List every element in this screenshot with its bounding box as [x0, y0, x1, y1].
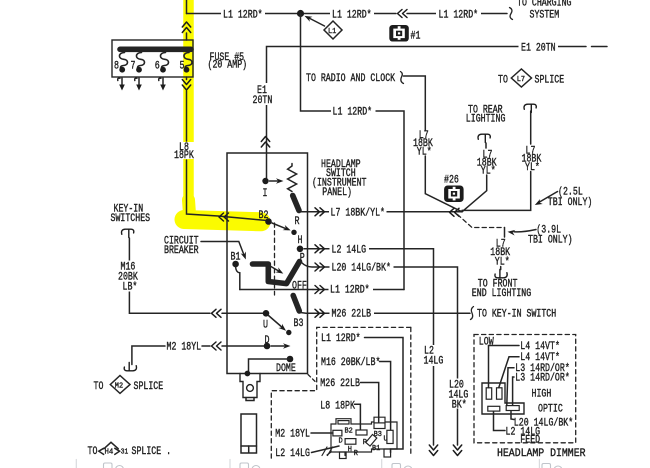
svg-text:L7: L7	[517, 76, 525, 84]
svg-text:FEED: FEED	[520, 435, 540, 447]
label HEADLAMP SWITCH	[312, 159, 367, 199]
connector wire labels	[320, 333, 403, 453]
svg-text:L3 14RD/OR*: L3 14RD/OR*	[515, 372, 570, 384]
svg-text:M2 18YL: M2 18YL	[167, 342, 202, 354]
callout 3.9L TBI ONLY	[507, 225, 572, 247]
svg-text:L2 14LG: L2 14LG	[275, 448, 310, 460]
wire L7 to radio and clock	[306, 72, 462, 212]
splice M2	[94, 376, 164, 394]
terminal I and resistor	[262, 164, 296, 201]
connector arrows below fuse	[118, 78, 166, 91]
label TO CHARGING SYSTEM	[517, 0, 572, 22]
svg-text:D: D	[339, 437, 344, 445]
svg-text:B2: B2	[345, 427, 354, 435]
terminal U	[263, 310, 292, 335]
svg-text:L1: L1	[328, 28, 337, 36]
svg-text:L7 18BK/YL*: L7 18BK/YL*	[331, 208, 386, 220]
svg-text:31: 31	[121, 449, 129, 457]
wire M16 20BK/LB	[116, 238, 266, 317]
dimmer connector	[482, 383, 524, 414]
highlight marker yellow	[184, 0, 261, 222]
svg-text:TO RADIO AND CLOCK: TO RADIO AND CLOCK	[306, 73, 395, 85]
svg-text:SWITCHES: SWITCHES	[111, 213, 151, 225]
svg-text:HIGH: HIGH	[532, 389, 552, 401]
svg-text:YL*: YL*	[417, 147, 432, 159]
headlamp switch box	[227, 153, 308, 374]
svg-text:BREAKER: BREAKER	[164, 245, 199, 257]
svg-text:B3: B3	[294, 318, 304, 330]
svg-text:TO CHARGING: TO CHARGING	[517, 0, 572, 10]
svg-text:PANEL): PANEL)	[322, 187, 352, 199]
fuse #5 block	[112, 40, 193, 77]
splice symbol L1	[303, 13, 342, 39]
switch connector plug	[240, 371, 260, 401]
svg-text:#1: #1	[411, 31, 421, 43]
wire M2 18YL	[124, 342, 266, 371]
svg-text:L2 14LG: L2 14LG	[332, 245, 367, 257]
svg-text:M26 22LB: M26 22LB	[320, 378, 360, 390]
svg-text:SYSTEM: SYSTEM	[530, 10, 560, 22]
svg-text:B1: B1	[372, 445, 381, 453]
wire L1 12RD vertical link	[301, 14, 405, 290]
wire L7 18BK/YL from switch	[299, 206, 462, 220]
svg-text:DOME: DOME	[276, 363, 296, 375]
svg-text:I: I	[263, 188, 268, 200]
svg-text:20TN: 20TN	[253, 95, 273, 107]
svg-text:M16 20BK/LB*: M16 20BK/LB*	[321, 357, 380, 369]
svg-text:BK*: BK*	[452, 400, 467, 412]
terminal B2	[259, 210, 300, 235]
svg-text:14LG: 14LG	[424, 356, 444, 368]
label FUSE #5 (20 AMP)	[208, 52, 248, 72]
thumbnail row	[76, 460, 562, 468]
wiper R	[293, 196, 299, 211]
wire L7 3.9L branch dashed	[458, 215, 532, 301]
svg-text:OFF: OFF	[292, 281, 307, 293]
svg-text:YL*: YL*	[495, 257, 510, 269]
svg-text:H: H	[298, 235, 303, 247]
svg-text:L1 12RD*: L1 12RD*	[330, 285, 370, 297]
wiper OFF-P thick path	[253, 253, 305, 284]
wire L7 to rear lighting	[462, 105, 505, 212]
svg-text:TO: TO	[94, 381, 104, 393]
svg-text:L1 12RD*: L1 12RD*	[333, 107, 373, 119]
svg-text:TBI ONLY): TBI ONLY)	[528, 235, 573, 247]
headlamp dimmer box	[474, 335, 586, 461]
svg-text:18PK: 18PK	[174, 150, 194, 162]
svg-text:7: 7	[131, 61, 136, 73]
wire L2 14LG	[304, 244, 444, 456]
dimmer labels	[479, 337, 573, 447]
instrument panel connector	[327, 417, 397, 458]
terminal D	[264, 335, 291, 350]
svg-text:H: H	[348, 446, 352, 454]
svg-text:L1 12RD*: L1 12RD*	[223, 10, 263, 22]
svg-text:L1 12RD*: L1 12RD*	[332, 10, 372, 22]
wire M2 18YL connector	[275, 428, 333, 440]
svg-text:LIGHTING: LIGHTING	[466, 114, 506, 126]
svg-text:M2 18YL: M2 18YL	[275, 428, 310, 440]
splice #26	[444, 175, 464, 203]
wire L1 12RD from OFF	[313, 284, 404, 297]
svg-text:6: 6	[155, 61, 160, 73]
dashed divider	[274, 223, 276, 295]
splice H4 note	[88, 442, 172, 458]
svg-text:TO: TO	[88, 446, 98, 458]
wire L7 right 2.5L	[462, 104, 542, 210]
splice L7 note	[498, 69, 564, 87]
svg-text:B2: B2	[259, 210, 269, 222]
svg-text:LOW: LOW	[479, 337, 494, 349]
wire L1 12RD top feed	[187, 8, 513, 22]
wire M26 22LB	[300, 308, 471, 321]
svg-text:TBI ONLY): TBI ONLY)	[548, 197, 593, 209]
dashed connector box	[271, 327, 411, 461]
svg-text:E1 20TN: E1 20TN	[521, 43, 556, 55]
svg-text:B1: B1	[231, 252, 241, 264]
circuit breaker callout	[164, 236, 248, 261]
callout 2.5L TBI ONLY	[533, 187, 592, 210]
svg-text:YL*: YL*	[481, 166, 496, 178]
svg-text:OPTIC: OPTIC	[538, 404, 563, 416]
label KEY-IN SWITCHES	[111, 204, 151, 238]
label OFF	[240, 281, 313, 293]
svg-text:TO: TO	[498, 75, 508, 87]
wire L20 14LG/BK	[302, 262, 471, 456]
svg-text:R: R	[354, 450, 359, 458]
svg-text:L4 14VT*: L4 14VT*	[520, 341, 560, 353]
wire E1 20TN	[252, 41, 607, 178]
svg-text:(20 AMP): (20 AMP)	[208, 60, 248, 72]
svg-text:END LIGHTING: END LIGHTING	[472, 288, 531, 300]
terminal DOME	[249, 356, 296, 375]
svg-text:TO KEY-IN SWITCH: TO KEY-IN SWITCH	[477, 309, 556, 321]
wire L2 14LG connector	[275, 446, 339, 460]
svg-text:SPLICE .: SPLICE .	[132, 446, 172, 458]
svg-text:M2: M2	[115, 383, 124, 391]
svg-text:L1 12RD*: L1 12RD*	[439, 10, 479, 22]
svg-text:#26: #26	[444, 175, 459, 187]
label TO KEY-IN SWITCH	[471, 307, 557, 321]
svg-text:R: R	[295, 216, 300, 228]
svg-text:HEADLAMP DIMMER: HEADLAMP DIMMER	[497, 448, 586, 460]
terminal B1	[231, 252, 241, 290]
svg-text:L1 12RD*: L1 12RD*	[321, 333, 361, 345]
icon #1	[389, 25, 420, 43]
svg-text:U: U	[263, 320, 268, 332]
wire L8 18PK highlighted	[172, 0, 267, 221]
svg-text:YL*: YL*	[525, 162, 540, 174]
svg-text:5: 5	[180, 61, 185, 73]
svg-text:8: 8	[114, 61, 119, 73]
wiper B3	[293, 296, 303, 331]
svg-text:H4: H4	[105, 449, 114, 457]
component below plug	[241, 414, 257, 453]
svg-text:SPLICE: SPLICE	[134, 381, 164, 393]
svg-text:L20 14LG/BK*: L20 14LG/BK*	[332, 263, 391, 275]
svg-text:B3: B3	[374, 431, 383, 439]
terminal H	[297, 235, 304, 252]
svg-text:SPLICE: SPLICE	[535, 75, 565, 87]
svg-text:M26 22LB: M26 22LB	[332, 309, 372, 321]
svg-text:L8 18PK: L8 18PK	[320, 400, 355, 412]
svg-text:LB*: LB*	[123, 282, 138, 294]
